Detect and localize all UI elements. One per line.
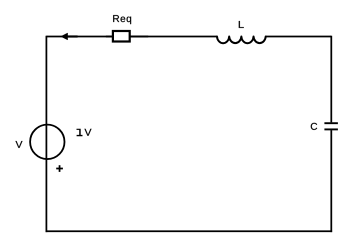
- label L: [239, 21, 244, 28]
- label Req: [113, 15, 131, 24]
- voltage source V (circle): [30, 125, 64, 159]
- wire: bottom segment: [46, 230, 333, 232]
- wire: right vertical above capacitor: [330, 36, 332, 123]
- capacitor C (two plates): [324, 123, 338, 129]
- resistor Req (box style): [106, 31, 148, 42]
- label V: [15, 141, 22, 148]
- inductor L (four scallops): [217, 37, 266, 44]
- label C: [311, 123, 317, 130]
- wire: right vertical below capacitor: [330, 130, 332, 232]
- current arrow (pointing left on top wire): [61, 33, 78, 40]
- plus sign: [56, 165, 63, 172]
- label 1V: digit 1 (mono style with foot): [77, 129, 83, 136]
- wire: top segment from inductor to right corner: [266, 36, 332, 38]
- wire: top segment from left corner to inductor: [46, 36, 217, 38]
- wire: left vertical segment (through source): [45, 36, 47, 232]
- label 1V: letter V: [84, 129, 91, 136]
